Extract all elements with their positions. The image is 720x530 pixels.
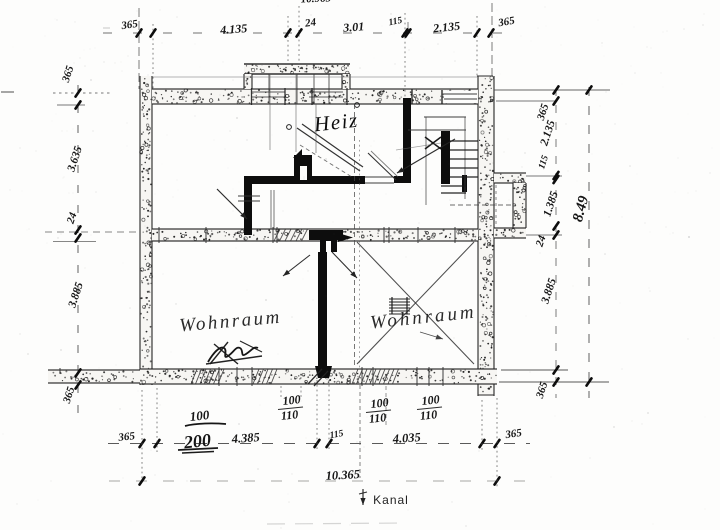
svg-text:Kanal: Kanal bbox=[373, 493, 409, 507]
svg-text:100: 100 bbox=[370, 395, 389, 411]
svg-text:2.135: 2.135 bbox=[431, 19, 460, 36]
svg-text:4.035: 4.035 bbox=[391, 430, 421, 446]
svg-text:365: 365 bbox=[120, 18, 139, 32]
svg-text:110: 110 bbox=[280, 407, 299, 423]
svg-text:24: 24 bbox=[303, 16, 317, 30]
svg-text:100: 100 bbox=[282, 392, 301, 408]
svg-text:10.365: 10.365 bbox=[325, 467, 360, 483]
svg-text:100: 100 bbox=[421, 392, 440, 408]
svg-text:4.385: 4.385 bbox=[230, 430, 260, 446]
svg-text:Heiz: Heiz bbox=[312, 108, 360, 137]
svg-text:3.01: 3.01 bbox=[342, 19, 365, 35]
svg-text:365: 365 bbox=[504, 427, 523, 441]
svg-text:110: 110 bbox=[419, 407, 438, 423]
svg-text:100: 100 bbox=[189, 407, 210, 424]
svg-text:365: 365 bbox=[117, 430, 136, 444]
svg-text:110: 110 bbox=[368, 410, 387, 426]
svg-text:4.135: 4.135 bbox=[219, 21, 248, 37]
